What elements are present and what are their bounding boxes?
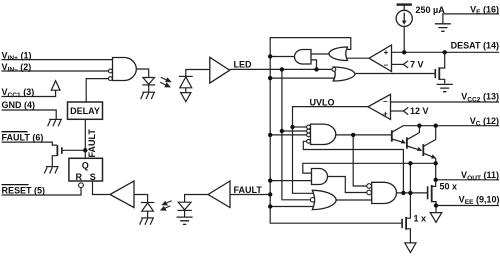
rail arrow 1x VEE down [405, 243, 416, 253]
wire LED1 cathode to ground [148, 85, 150, 92]
wire 1x drain up to sense line [406, 163, 410, 218]
ground D2 signal ground [140, 218, 154, 225]
svg-text:R: R [76, 172, 83, 182]
bubble AND2 input B [307, 129, 311, 133]
wire LED bus to AND2 input B [282, 130, 307, 132]
wire Q1 collector to VC line and pin [392, 126, 499, 133]
svg-text:S: S [90, 172, 96, 182]
wire buffer U4 input from fault bus [230, 194, 270, 196]
wire fault bus to OR3 bottom input [270, 206, 314, 208]
flip-flop U1 RS latch [69, 158, 103, 181]
wire Q3 emitter junction to VOUT node [435, 158, 437, 180]
svg-text:12 V: 12 V [410, 106, 429, 116]
wire AND3 output to AND4 middle bubble [327, 177, 366, 193]
wire UVLO bus to AND2 input A [293, 126, 307, 128]
junction dot LED bus AND2 B [280, 129, 284, 133]
svg-text:LED: LED [234, 59, 253, 69]
wire AND1 output to fault bus [270, 56, 294, 58]
or-gate OR3 pulldown logic [312, 190, 336, 209]
wire VOUT line to pin [436, 179, 499, 181]
junction dot DESAT line current source [402, 50, 406, 54]
transistor Q2 base bar [406, 137, 408, 148]
or-gate OR2 blanking control [333, 67, 355, 81]
arrowhead Q2 emitter [417, 147, 422, 151]
mosfet Q5 desat blank gate bar [434, 69, 436, 78]
ground Q5 source earth [437, 84, 453, 91]
bubble AND4 input 1 [367, 184, 372, 189]
delay block DELAY [68, 102, 103, 119]
wire Q5 source to ground [439, 79, 445, 84]
wire OR2 output to Q5 gate [355, 73, 435, 75]
wire VE pin to ground [443, 14, 499, 24]
mosfet Q6 channel bar [431, 185, 433, 202]
diode LED2 fault transmit [178, 202, 192, 210]
transistor Q1 base bar [391, 130, 393, 141]
svg-text:FAULT: FAULT [87, 129, 97, 158]
wire RESET pin to R input bubble [2, 188, 82, 195]
junction dot VC line Q2 collector [417, 124, 421, 128]
wire LED signal line buffer U2 to OR2 [230, 68, 333, 70]
and-gate AND1 fault detect [295, 50, 312, 65]
junction dot LED line at AND1 input [314, 67, 318, 71]
bubble OR2 input [332, 68, 336, 72]
diode LED1 transmit [142, 78, 155, 85]
bubble flip-flop R input [79, 183, 84, 188]
current source I1 250uA [396, 10, 412, 26]
wire comparator U5 minus input to 7V reference [392, 63, 404, 65]
junction dot fault bus AND2 C [268, 133, 272, 137]
wire DELAY to flip-flop Q node [84, 119, 86, 158]
wire Q3 collector to VC line [423, 126, 435, 147]
junction dot fault bus AND3 input [268, 178, 272, 182]
wire AND1 lower input from LED line [311, 60, 317, 70]
junction dot fault bus OR3 input [268, 204, 272, 208]
wire 50x source to VEE line [432, 202, 436, 206]
wire photodiode D2 anode to ground [147, 211, 149, 217]
wire Q4 gate to Q node [62, 149, 86, 151]
reference arrowhead 7V [403, 61, 408, 68]
junction dot sense line at 1x drain [408, 161, 412, 165]
mosfet Q7 channel bar [405, 217, 407, 230]
junction dot sense line at VOUT node [434, 161, 438, 165]
wire 50x drain to VOUT node [432, 180, 436, 187]
wire AND0 output to LED1 [136, 69, 148, 78]
junction dot AND4 output 1x drain [408, 191, 412, 195]
rail arrow 50x VEE down [430, 213, 442, 223]
junction dot fault bus buffer U4 [268, 192, 272, 196]
ground VE earth [435, 24, 451, 32]
svg-text:DESAT (14): DESAT (14) [451, 41, 499, 51]
wire fault bus to OR2 input [270, 77, 336, 79]
wire fault bus to AND2 input C [270, 134, 306, 136]
wire VIN- pin to AND0 bubble [2, 70, 109, 72]
junction dot DESAT line Q5 drain [443, 50, 447, 54]
supply arrow VCC1 [51, 81, 60, 91]
ground LED1 signal ground [141, 92, 155, 99]
junction dot VEE line [434, 203, 438, 207]
rail arrow D1 anode down [181, 93, 191, 102]
transistor Q2 emitter [407, 146, 422, 151]
svg-text:DELAY: DELAY [70, 106, 100, 116]
and-gate AND4 pulldown driver [372, 182, 397, 203]
wire buffer U4 output to LED2 [185, 195, 209, 203]
wire Q5 drain to DESAT line [439, 52, 444, 68]
wire DESAT line comparator U5 plus input to pin [392, 51, 500, 53]
wire LED2 cathode to ground [184, 211, 186, 217]
svg-text:Q: Q [82, 160, 89, 170]
svg-text:50 x: 50 x [440, 182, 458, 192]
ground Q4 source signal ground [44, 167, 58, 174]
arrowhead Q1 emitter [401, 139, 406, 143]
junction dot UVLO bus AND2 A [290, 125, 294, 129]
wire LED bus to OR3 middle bubble [282, 69, 311, 199]
svg-text:+: + [383, 109, 388, 118]
mosfet Q5 channel bar [438, 67, 440, 80]
svg-text:–: – [384, 60, 389, 69]
wire FAULT pin to Q4 drain [2, 142, 57, 145]
wire OR3 output to AND4 bottom input [336, 199, 371, 201]
comparator U6 UVLO 12V [368, 94, 391, 119]
wire VEE line to pin [436, 205, 499, 207]
wire internal fault bus with top rail to OR1 and bottom to 1x gate [270, 38, 402, 224]
svg-text:VIN– (2): VIN– (2) [2, 62, 32, 74]
wire UVLO bus comparator U6 to OR3 top input [293, 107, 369, 194]
svg-text:FAULT (6): FAULT (6) [2, 133, 44, 143]
light arrows channel 2 fault [161, 201, 172, 210]
ground LED2 earth [177, 217, 193, 224]
wire VOUT sense line to AND3 top input [303, 163, 436, 173]
wire Q4 source to ground [52, 156, 57, 167]
buffer U4 fault LED driver [208, 181, 230, 208]
wire 1x source to rail arrow [406, 229, 410, 243]
wire photodiode D1 to buffer U2 input [186, 70, 210, 77]
light arrows channel 1 [160, 77, 170, 87]
mosfet Q4 gate bar [61, 147, 63, 154]
junction dot Q node gate of Q4 [83, 148, 87, 152]
svg-text:1 x: 1 x [414, 213, 427, 223]
transistor Q3 base bar [422, 144, 424, 156]
bubble AND4 input 2 [367, 190, 372, 195]
and-gate AND2 driver on logic [311, 124, 336, 144]
diode D2 photodiode fault receive [141, 203, 155, 212]
and-gate AND3 sense logic [312, 169, 328, 185]
wire photodiode D2 to buffer U3 input [134, 195, 148, 203]
diode D1 photodiode receive [179, 76, 193, 87]
svg-text:+: + [384, 48, 389, 57]
junction dot VOUT line [434, 178, 438, 182]
wire comparator U5 output to OR1 input [346, 57, 369, 59]
svg-text:UVLO: UVLO [310, 97, 335, 107]
wire VIN+ pin to AND0 [2, 59, 113, 61]
junction dot VC line Q3 collector [434, 124, 438, 128]
wire fault bus to AND3 input [270, 180, 311, 182]
reference arrowhead 12V [403, 107, 408, 114]
or-gate OR1 fault latch feedback [329, 47, 348, 61]
transistor Q1 emitter [392, 139, 406, 143]
buffer U2 LED receiver [210, 57, 230, 83]
svg-text:250 µA: 250 µA [416, 5, 446, 15]
and-gate AND0 input gate [113, 58, 137, 81]
bubble AND2 input C [307, 133, 311, 137]
arrowhead current source I1 [402, 21, 407, 25]
bubble AND0 input 2 [109, 69, 113, 73]
junction dot AND4 output feedback [401, 191, 405, 195]
wire AND2 output to Q1 base [336, 134, 392, 136]
mosfet Q4 fault output channel bar [56, 145, 58, 156]
wire Q2 collector to VC line [407, 126, 420, 140]
junction dot LED line at LED bus [280, 67, 284, 71]
wire GND pin to ground [2, 110, 57, 119]
wire VEE rail arrow stem [435, 206, 437, 213]
svg-text:FAULT: FAULT [234, 185, 263, 195]
svg-text:GND (4): GND (4) [2, 100, 36, 110]
wire VCC2 line comparator U6 minus input to pin [391, 101, 500, 103]
svg-text:7 V: 7 V [410, 59, 424, 69]
svg-text:RESET (5): RESET (5) [2, 186, 46, 196]
junction dot feedback bus at AND2 output [351, 133, 355, 137]
arrowhead Q3 emitter [431, 154, 436, 158]
buffer U3 fault receiver to S input [110, 181, 134, 208]
wire OR1 output to AND1 input [311, 53, 329, 55]
mosfet Q6 50x pulldown gate bar [427, 186, 429, 199]
comparator U5 DESAT 7V [369, 45, 392, 72]
junction dot fault bus AND1 output [268, 54, 272, 58]
wire S input from buffer U3 [93, 181, 111, 195]
svg-text:–: – [383, 97, 388, 106]
svg-text:VIN+ (1): VIN+ (1) [2, 50, 32, 62]
transistor Q3 emitter [423, 153, 435, 158]
wire AND4 output to 50x gate [397, 192, 428, 194]
wire photodiode D1 anode to rail arrow [185, 88, 187, 93]
wire feedback bus AND2 output to AND4 input bubble [353, 135, 367, 186]
bubble AND0 input 3 [109, 77, 113, 81]
wire AND0 third input from DELAY [86, 79, 108, 102]
wire VCC1 pin to supply arrow [2, 90, 56, 96]
wire comparator U6 plus input to 12V reference [391, 110, 404, 112]
ground GND4 signal ground [48, 119, 62, 126]
bubble OR3 middle input [310, 198, 314, 202]
wire current source I1 stems [403, 5, 405, 52]
bubble AND2 input A [307, 125, 311, 129]
bubble AND2 input D [307, 139, 311, 143]
svg-text:VEE (9,10): VEE (9,10) [459, 194, 500, 206]
supply rail bar above I1 [397, 3, 412, 5]
wire AND4 output feedback to AND2 input D [303, 141, 403, 193]
mosfet Q7 1x mirror gate bar [401, 219, 403, 229]
junction dot fault bus OR2 input [268, 76, 272, 80]
